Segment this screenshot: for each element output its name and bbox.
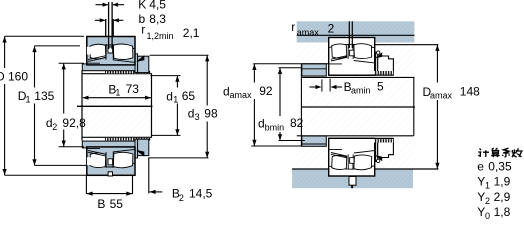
right bearing bottom mirror	[329, 138, 394, 176]
svg-text:amax: amax	[297, 27, 320, 37]
svg-text:1: 1	[173, 95, 178, 105]
svg-text:5: 5	[377, 80, 384, 94]
dimension D1 135	[18, 46, 87, 165]
housing shoulder line top	[297, 34, 415, 36]
svg-text:r: r	[291, 20, 295, 34]
right roller	[354, 44, 372, 59]
centerline axis right	[301, 106, 415, 108]
washer tab notch bottom face	[108, 172, 112, 176]
svg-text:2: 2	[485, 196, 490, 206]
svg-text:8,3: 8,3	[149, 12, 166, 26]
svg-text:73: 73	[126, 82, 140, 96]
chamfer notch left face	[87, 47, 91, 55]
abutment ring bottom	[302, 136, 327, 146]
lock washer plate	[135, 54, 138, 73]
dimension B2 14,5	[149, 158, 213, 203]
svg-text:0: 0	[485, 211, 490, 221]
washer slot lines through housing top	[348, 21, 350, 48]
sleeve thread teeth top	[105, 71, 151, 74]
svg-text:amax: amax	[430, 91, 453, 101]
svg-text:65: 65	[182, 89, 196, 103]
thread teeth	[374, 71, 394, 74]
svg-text:D 160: D 160	[0, 70, 28, 84]
right bearing top	[329, 38, 394, 76]
dimension d3 98	[148, 55, 218, 158]
svg-text:2: 2	[179, 193, 184, 203]
left roller	[332, 44, 347, 58]
svg-text:148: 148	[460, 85, 480, 99]
cage lines	[348, 45, 353, 60]
dimension K 4,5	[96, 0, 167, 12]
dimension B 55	[86, 176, 132, 211]
calculation factors heading (CJK glyphs drawn as vector strokes)	[478, 148, 522, 157]
svg-text:1,8: 1,8	[494, 205, 511, 219]
dimension d2 92,8	[46, 63, 86, 147]
bearing body white	[329, 38, 375, 76]
dimension r 1,2min 2,1	[141, 23, 200, 42]
svg-text:82: 82	[290, 116, 304, 130]
svg-text:1: 1	[26, 94, 31, 104]
inner ring taper lines	[87, 56, 135, 64]
locknut	[378, 56, 394, 75]
washer tab in slot	[108, 47, 113, 53]
dimension D amax 148	[423, 45, 481, 169]
outer raceway	[329, 44, 375, 47]
svg-text:amax: amax	[230, 90, 253, 100]
dimension B amin 5	[310, 79, 385, 96]
svg-text:B: B	[97, 197, 105, 211]
locknut	[138, 56, 149, 72]
washer tab	[376, 52, 382, 58]
housing bore line bottom / Damax ext	[292, 168, 438, 170]
dimension d1 65	[150, 76, 195, 136]
svg-text:1: 1	[485, 181, 490, 191]
centerline axis left	[77, 105, 153, 107]
svg-text:amin: amin	[351, 86, 371, 96]
svg-text:55: 55	[110, 197, 124, 211]
glyph shu	[512, 148, 522, 157]
svg-text:2,9: 2,9	[494, 190, 511, 204]
cage / guide ring center	[106, 44, 113, 60]
svg-text:1,9: 1,9	[494, 175, 511, 189]
top bearing assembly group	[82, 37, 149, 73]
bottom line of assembly	[329, 74, 394, 76]
svg-text:3: 3	[195, 112, 200, 122]
calculation factors values	[477, 159, 512, 221]
svg-text:135: 135	[34, 89, 54, 103]
svg-text:2: 2	[52, 122, 57, 132]
housing hatch area	[297, 45, 415, 169]
glyph xi	[502, 148, 509, 157]
glyph ji	[478, 149, 489, 158]
svg-text:bmin: bmin	[265, 123, 285, 133]
lock washer tab	[137, 55, 145, 62]
svg-text:2: 2	[328, 22, 335, 36]
left roller	[90, 44, 106, 59]
dimension d amax 92	[223, 64, 328, 146]
abutment ring top	[302, 64, 327, 76]
svg-text:d: d	[188, 107, 195, 121]
dimension B1 73	[82, 81, 151, 100]
housing top band	[297, 21, 415, 42]
svg-text:92: 92	[259, 84, 273, 98]
Damax top ext line	[375, 44, 439, 46]
washer tab notch bottom	[349, 177, 356, 186]
washer width lines (b)	[105, 19, 107, 37]
bottom bearing assembly (mirror)	[82, 139, 149, 175]
svg-text:92,8: 92,8	[62, 116, 86, 130]
svg-text:2,1: 2,1	[183, 26, 200, 40]
svg-text:e: e	[477, 159, 484, 173]
washer bent tab circle	[377, 51, 380, 54]
right roller	[113, 44, 132, 59]
lock washer plate	[376, 52, 378, 75]
dimension b 8,3	[95, 12, 167, 26]
adapter sleeve body outline	[82, 71, 152, 141]
svg-text:1,2min: 1,2min	[147, 31, 174, 41]
sleeve bore hatching	[83, 71, 152, 140]
svg-text:98: 98	[204, 106, 218, 120]
sleeve thread teeth bottom	[105, 138, 151, 141]
svg-text:1: 1	[115, 88, 120, 98]
washer tab in slot	[350, 50, 354, 56]
washer tab slot lines (K)	[108, 2, 110, 49]
sleeve flange	[82, 64, 135, 71]
inner ring taper lines	[329, 56, 374, 64]
svg-text:0,35: 0,35	[488, 159, 512, 173]
svg-text:14,5: 14,5	[189, 187, 213, 201]
glyph suan	[491, 148, 500, 157]
washer tab tick bottom	[351, 185, 353, 188]
housing bottom band	[292, 169, 413, 188]
dimension r amax 2	[291, 20, 334, 38]
outer ring raceway curve	[87, 45, 135, 49]
svg-text:d: d	[166, 89, 173, 103]
svg-text:K: K	[138, 0, 146, 12]
bearing outer box (rings, blue)	[87, 37, 135, 65]
svg-text:4,5: 4,5	[149, 0, 166, 12]
shaft	[297, 64, 415, 146]
dimension D 160	[0, 36, 87, 175]
dimension d bmin 82	[258, 68, 305, 141]
svg-text:r: r	[141, 23, 145, 37]
